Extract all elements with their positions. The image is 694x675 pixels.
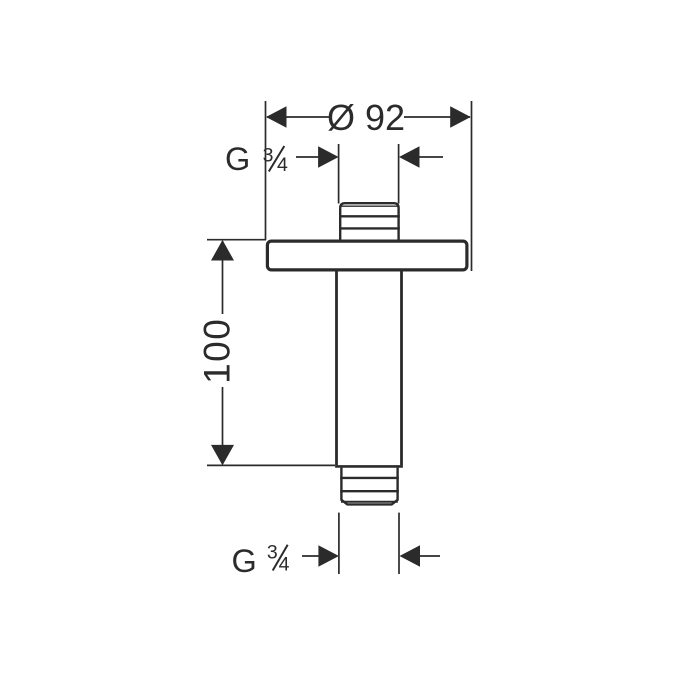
arrowhead Ø92 left xyxy=(266,106,287,127)
extension line right of bottom thread xyxy=(398,513,400,574)
dimension line Ø92 right segment xyxy=(404,116,470,118)
pipe left edge xyxy=(335,272,338,466)
dimension line 100 upper segment xyxy=(222,241,224,314)
bottom threaded end body xyxy=(341,468,397,505)
extension line left of top thread xyxy=(338,144,340,204)
top connector cap seam line xyxy=(341,205,398,207)
extension line left of Ø92 dimension xyxy=(265,101,267,240)
extension line top of 100 dimension xyxy=(207,239,266,241)
bottom thread line 1 xyxy=(340,477,399,479)
svg-text:G: G xyxy=(225,141,250,177)
arrowhead Ø92 right xyxy=(450,106,471,127)
svg-text:3: 3 xyxy=(263,145,274,167)
pipe bottom edge xyxy=(335,465,403,468)
bottom thread line 3 xyxy=(341,501,398,503)
arrowhead G3/4 bottom left xyxy=(318,545,339,566)
dimension text 100 (rotated) xyxy=(197,318,238,384)
extension line left of bottom thread xyxy=(338,513,340,574)
arrowhead G3/4 top right xyxy=(399,146,420,167)
top connector thread line 2 xyxy=(339,227,400,229)
svg-text:G: G xyxy=(232,543,257,579)
svg-text:4: 4 xyxy=(277,154,288,176)
leader line G3/4 bottom right xyxy=(417,555,440,557)
label G 3/4 top xyxy=(225,141,288,177)
extension line right of Ø92 dimension xyxy=(471,101,473,271)
dimension line 100 lower segment xyxy=(222,387,224,464)
arrowhead 100 down xyxy=(211,445,234,466)
arrowhead G3/4 top left xyxy=(318,146,339,167)
dimension text Ø 92 xyxy=(327,97,405,138)
bottom thread line 2 xyxy=(340,490,399,492)
ceiling flange xyxy=(267,241,467,270)
arrowhead 100 up xyxy=(211,240,234,261)
pipe right edge xyxy=(400,272,403,466)
top connector thread line 1 xyxy=(339,215,400,217)
extension line right of top thread xyxy=(398,144,400,204)
svg-text:100: 100 xyxy=(197,318,238,384)
svg-text:3: 3 xyxy=(267,541,278,563)
dimension line Ø92 left segment xyxy=(267,116,329,118)
label G 3/4 bottom xyxy=(232,541,290,579)
svg-text:Ø 92: Ø 92 xyxy=(327,97,405,138)
arrowhead G3/4 bottom right xyxy=(400,545,421,566)
leader line G3/4 top right xyxy=(417,156,443,158)
extension line bottom of 100 dimension xyxy=(207,464,335,466)
leader line G3/4 top left xyxy=(296,156,322,158)
svg-text:4: 4 xyxy=(279,553,290,575)
leader line G3/4 bottom left xyxy=(302,555,322,557)
top threaded connector body xyxy=(340,203,398,240)
